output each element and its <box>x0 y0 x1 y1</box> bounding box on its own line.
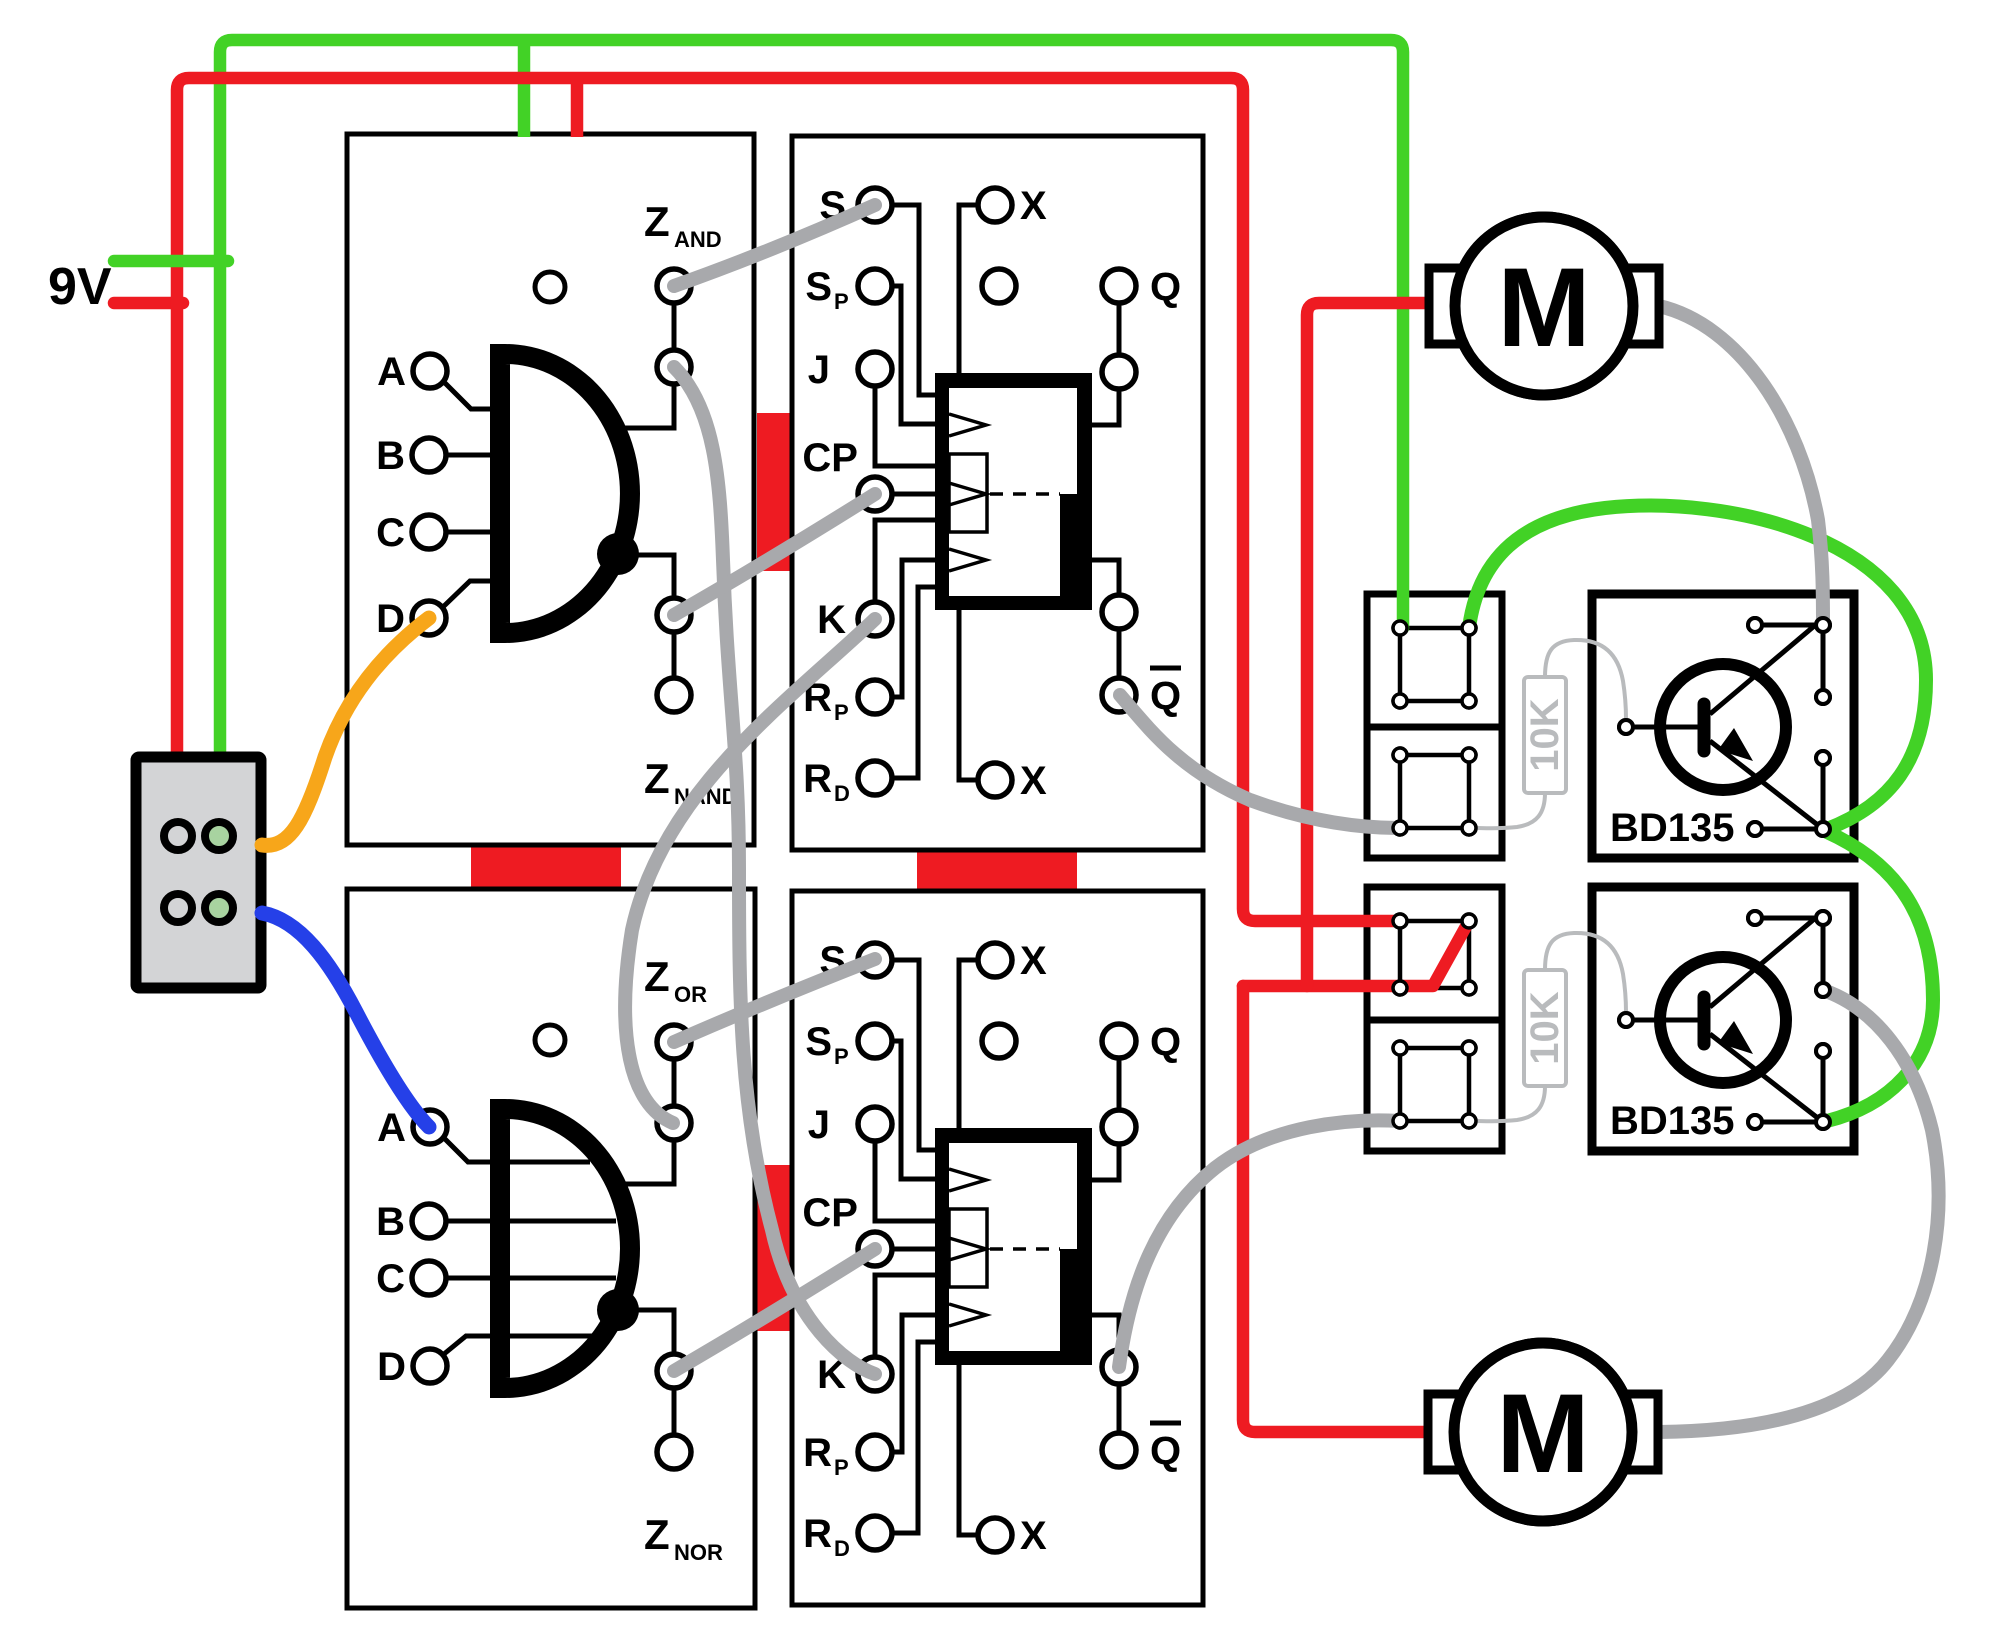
svg-text:D: D <box>377 1345 406 1389</box>
svg-text:AND: AND <box>674 227 722 252</box>
pin ZAND <box>657 269 691 303</box>
motor M2 <box>1428 1343 1658 1521</box>
NOR gate body <box>490 1099 640 1398</box>
wire A2 into gate <box>445 1139 590 1162</box>
pin D <box>412 601 446 635</box>
wire red switch jumper <box>1400 921 1469 986</box>
resistor R1 10K <box>1523 677 1567 793</box>
motor M1 <box>1429 217 1659 395</box>
wire orange battery to D <box>262 618 429 845</box>
wire gray transistor2 to motor2 <box>1659 990 1939 1432</box>
transistor Q1 pin contacts <box>1619 618 1830 836</box>
wire gray K1 to OR out <box>625 619 875 1123</box>
wire NOR output <box>634 1310 674 1354</box>
battery hole 4 green <box>205 894 233 922</box>
wire red switch row <box>1243 980 1400 993</box>
wire NAND output <box>634 555 674 598</box>
wire B to gate <box>446 453 492 458</box>
battery hole 2 green <box>205 822 233 850</box>
wire OR output <box>620 1140 674 1184</box>
switch S1 pin contacts <box>1393 621 1476 835</box>
svg-text:A: A <box>377 1106 406 1150</box>
wire green supply bus <box>220 40 1403 760</box>
svg-text:B: B <box>376 434 405 478</box>
wire gray AND out to K2 <box>674 367 875 1374</box>
wire gray ZOR to S2 <box>674 959 875 1042</box>
wire green 9V stub <box>114 255 228 268</box>
red bridge bar between top modules <box>757 413 791 571</box>
pin D2 <box>413 1349 447 1383</box>
svg-text:9V: 9V <box>48 258 112 316</box>
svg-text:C: C <box>376 1257 405 1301</box>
switch S2 pin contacts <box>1393 914 1476 1128</box>
pin NOR output <box>657 1354 691 1388</box>
transistor module Q1 BD135 <box>1592 594 1854 858</box>
svg-text:A: A <box>377 350 406 394</box>
wire D2 into gate <box>444 1336 592 1354</box>
wire gray Qbar1 to switch1 <box>1120 695 1400 828</box>
svg-text:Z: Z <box>644 198 670 245</box>
wire green stub to gate module <box>518 40 531 137</box>
pin OR output <box>657 1106 691 1140</box>
pin ZOR <box>657 1025 691 1059</box>
wire A to gate <box>445 383 492 409</box>
resistor R2 top lead <box>1545 933 1626 1012</box>
wire gray Qbar2 to switch2 <box>1119 1120 1400 1367</box>
transistor module Q2 BD135 <box>1592 887 1854 1151</box>
resistor R2 bottom lead <box>1477 1086 1545 1121</box>
wire D to gate <box>444 581 492 606</box>
NOR gate module U2 <box>347 889 755 1608</box>
NOR bubble <box>597 1289 639 1331</box>
pin B <box>412 438 446 472</box>
battery connector block 9V <box>136 757 261 988</box>
battery hole 1 <box>164 822 192 850</box>
wire ZNOR link <box>672 1388 677 1435</box>
resistor R1 bottom lead <box>1477 793 1545 828</box>
unconnected pin <box>535 1025 565 1055</box>
wire blue battery to A2 <box>262 913 429 1127</box>
pin B2 <box>412 1204 446 1238</box>
wire red motor2 feed <box>1243 986 1430 1432</box>
motor M1 overlay <box>1429 217 1659 395</box>
wire gray NOR out to CP2 <box>674 1249 875 1371</box>
pin AND output <box>657 350 691 384</box>
wire red supply bus <box>177 78 1400 921</box>
pin C2 <box>412 1261 446 1295</box>
flip-flop module FF1 <box>792 136 1203 850</box>
transistor Q2 pin contacts <box>1619 911 1830 1129</box>
svg-text:Z: Z <box>644 755 670 802</box>
svg-text:Z: Z <box>644 953 670 1000</box>
pin C <box>412 515 446 549</box>
pin A2 <box>413 1110 447 1144</box>
red bridge bar between gate modules <box>471 847 621 891</box>
unconnected pin <box>535 272 565 302</box>
NAND gate module U1 <box>347 134 754 845</box>
NAND gate body <box>490 344 640 643</box>
wire AND output <box>620 384 674 428</box>
wire B2 into gate <box>446 1219 616 1224</box>
wire red 9V stub <box>114 297 183 310</box>
wire gray NAND out to CP1 <box>674 494 875 615</box>
wire ZNAND link <box>672 632 677 678</box>
svg-text:Z: Z <box>644 1511 670 1558</box>
wire ZAND link <box>672 303 677 350</box>
svg-text:B: B <box>376 1200 405 1244</box>
pin ZNAND <box>657 678 691 712</box>
wire gray ZAND to S <box>674 205 875 286</box>
wire ZOR link <box>672 1059 677 1106</box>
wire C2 into gate <box>446 1276 616 1281</box>
red bridge bar between bottom modules <box>757 1165 791 1331</box>
pin ZNOR <box>657 1435 691 1469</box>
svg-text:OR: OR <box>674 982 707 1007</box>
pin NAND output <box>657 598 691 632</box>
pin A <box>413 354 447 388</box>
wire green transistor to transistor arc <box>1827 832 1933 1121</box>
wire C to gate <box>446 530 492 535</box>
switch module S2 <box>1367 887 1502 1151</box>
red bridge bar between flip-flop modules <box>917 852 1077 892</box>
resistor R2 10K <box>1523 970 1567 1086</box>
wire red stub to gate module <box>571 78 584 137</box>
motor M2 overlay <box>1428 1343 1658 1521</box>
NAND bubble <box>597 533 639 575</box>
resistor R1 top lead <box>1545 640 1626 719</box>
switch module S1 <box>1367 594 1502 858</box>
wire green switch to transistor arc <box>1469 506 1926 829</box>
flip-flop module FF2 <box>792 891 1203 1605</box>
battery hole 3 <box>164 894 192 922</box>
wire red motor1 feed <box>1307 303 1429 986</box>
svg-text:NOR: NOR <box>674 1540 723 1565</box>
svg-text:C: C <box>376 511 405 555</box>
wire gray motor1 to transistor1 <box>1659 306 1823 625</box>
